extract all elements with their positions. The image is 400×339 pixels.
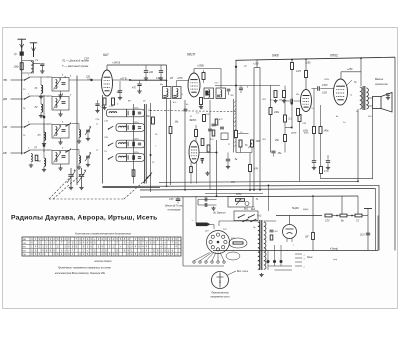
detector cluster resistor b	[212, 130, 215, 136]
band row wire СВ	[11, 126, 24, 128]
oscillator switch contact о2	[108, 126, 114, 130]
svg-text:СЛ3: СЛ3	[325, 221, 330, 223]
cap С16	[95, 100, 99, 113]
svg-text:Зв. Звукосн: Зв. Звукосн	[213, 213, 226, 215]
V5 cathode resistor 240к line	[319, 127, 322, 134]
trim cap ground КВ col2	[60, 164, 62, 167]
junction square x44 b	[43, 144, 45, 146]
gang link diagonal left	[49, 177, 71, 199]
resistor R1 100к	[20, 63, 23, 70]
capacitor С25 external	[176, 197, 181, 204]
vertical x185	[184, 100, 186, 190]
bottom PSU bus y250	[213, 250, 378, 252]
band row wire КВ	[11, 152, 24, 154]
svg-text:Д1: Д1	[243, 66, 247, 68]
trimmer capacitor C1	[33, 64, 44, 70]
vertical x166.5 lower	[166, 99, 168, 186]
svg-text:Вкл. сеть: Вкл. сеть	[237, 270, 249, 273]
wire det to pot	[236, 152, 252, 154]
rail cap right	[364, 209, 372, 216]
V3 plate resistor to bus	[305, 59, 308, 90]
V1 screen cap gnd	[118, 96, 122, 100]
svg-text:общ: общ	[333, 259, 337, 261]
svg-text:47б: 47б	[254, 168, 259, 171]
switch Вк1 contacts top	[242, 219, 256, 222]
V2 cathode ground	[199, 105, 203, 109]
svg-text:КВ: КВ	[3, 151, 7, 155]
wire IF1 to tube2 grid	[177, 80, 194, 82]
IF transformer ФПЧ-2 primary box	[204, 88, 214, 99]
V5 grid cap gnd	[312, 161, 316, 166]
left B+ loop top wire	[107, 64, 167, 66]
svg-text:включен диапаз: включен диапаз	[95, 260, 112, 263]
svg-text:+250В: +250В	[197, 66, 204, 68]
svg-text:6700: 6700	[236, 193, 242, 196]
table row header texts	[23, 239, 26, 256]
antenna A2 local	[30, 43, 37, 57]
resistor on x236	[235, 131, 238, 138]
tuned circuit box СВ col2	[52, 125, 69, 139]
tuned circuit box ДВ col2	[52, 97, 69, 111]
row4 extra coil cluster	[29, 154, 38, 168]
resistor 5к detector	[239, 140, 242, 147]
tube V6 5Ц4С rectifier	[283, 225, 297, 243]
trim cap ground ДВ col2	[60, 110, 62, 113]
cap on x185	[184, 109, 188, 111]
svg-text:3(4)Ц: 3(4)Ц	[303, 208, 309, 211]
band switch arm mechanical	[143, 173, 152, 184]
svg-text:громкогов: громкогов	[375, 83, 388, 86]
svg-text:4П: 4П	[170, 77, 173, 80]
filter resistor R F2	[340, 214, 347, 217]
speaker wires	[368, 97, 373, 99]
oscillator circuit loop о2	[116, 124, 145, 132]
feedthrough cap 220 grid	[90, 79, 92, 81]
RF2 switch contact y154	[65, 149, 71, 152]
filament junction dots	[267, 260, 270, 263]
ground of Л4	[42, 168, 46, 172]
table cell marks	[31, 239, 177, 256]
V2 screen resistor	[202, 70, 205, 83]
gang C6a ground	[69, 186, 73, 190]
svg-text:240к: 240к	[323, 130, 330, 133]
RF2 ground y128	[77, 140, 81, 144]
svg-text:Т — местный прием: Т — местный прием	[62, 64, 88, 68]
PSU right vertical x378	[377, 216, 379, 251]
svg-text:6Е5С: 6Е5С	[190, 118, 198, 122]
resistor 47к right	[249, 165, 252, 172]
bottom bus E y196.5	[140, 196, 358, 197]
oscillator switch contact о3	[108, 143, 114, 146]
C10 ground	[144, 77, 148, 81]
power transformer Тр1 core	[260, 220, 262, 270]
detector small box	[221, 133, 228, 140]
speaker Гр1	[373, 93, 393, 113]
tuned circuit box КВ col2	[52, 151, 69, 165]
V1 cathode resistor	[103, 98, 106, 105]
fuse oval inner	[233, 242, 243, 244]
V5 plate wire to x361	[341, 71, 361, 73]
main B+ bus right	[236, 57, 396, 60]
svg-text:Л1: Л1	[34, 87, 39, 90]
C11 ground	[159, 77, 163, 81]
ground of Л1	[39, 95, 43, 99]
V3 cathode lead down	[298, 112, 301, 181]
svg-text:220а: 220а	[133, 107, 139, 109]
IF2 side caps	[227, 89, 231, 95]
left vertical bus x150.5	[150, 103, 152, 192]
svg-text:Сч2: Сч2	[257, 215, 262, 218]
bottom bus B y186	[103, 185, 380, 186]
svg-text:С13: С13	[156, 77, 161, 80]
svg-text:0,1: 0,1	[196, 113, 199, 115]
wire plug bus	[195, 196, 197, 225]
resistor x313	[312, 233, 315, 240]
V1 plate wire to top bus	[106, 65, 108, 71]
vertical wire x236	[235, 60, 237, 152]
tuning gang capacitor C6b	[78, 168, 87, 186]
left vertical wire x44	[43, 95, 45, 152]
pickup cap ground	[211, 207, 215, 211]
voltage selector rotary	[207, 231, 230, 254]
V4 bottom wires	[190, 162, 197, 184]
vertical x170.5 with resistor	[169, 100, 172, 185]
svg-text:+140 В: +140 В	[112, 62, 120, 65]
svg-text:Л3: Л3	[37, 134, 42, 137]
svg-text:колонкорам: колонкорам	[168, 209, 181, 211]
feedback wire x372	[321, 109, 373, 179]
leader line Вкл сеть	[227, 270, 249, 276]
RF2 coil y154	[79, 150, 81, 166]
blob junction V3	[291, 102, 293, 104]
junction dot x291 y127	[291, 127, 293, 129]
gang C6b ground	[79, 186, 83, 190]
cap blob near V4	[201, 159, 204, 164]
band coil Л2	[41, 96, 43, 114]
left vertical bus x102.5	[102, 95, 104, 184]
resistor near V4 b	[207, 145, 210, 152]
svg-text:1: 1	[28, 94, 29, 96]
svg-text:С2Р: С2Р	[87, 79, 92, 81]
oscillator circuit loop о3	[116, 140, 145, 148]
svg-text:Л12: Л12	[261, 139, 267, 141]
band row wire ЛВ.	[11, 79, 24, 81]
V5 screen wire to bus	[347, 80, 352, 85]
detector cluster resistor a	[203, 115, 206, 122]
junction dot y80 x130	[129, 79, 131, 81]
svg-text:6Ж8: 6Ж8	[272, 54, 279, 58]
oscillator circuit loop о4	[116, 154, 145, 162]
Тр1 primary winding	[258, 222, 260, 269]
V6 anode cap parts	[270, 230, 274, 240]
V2 cathode resistor	[200, 98, 203, 105]
svg-text:+87 В: +87 В	[120, 78, 127, 81]
feedback wire x358	[357, 109, 359, 181]
svg-text:6А7: 6А7	[103, 53, 109, 57]
resistor 240к right	[269, 108, 272, 115]
svg-text:28в: 28в	[274, 140, 280, 142]
coupling cap to V3 grid	[286, 99, 301, 103]
RF2 switch contact y128	[65, 123, 71, 126]
svg-text:220а: 220а	[133, 152, 139, 154]
selector return bottom wire	[183, 265, 224, 267]
band row link wire ДВ	[30, 95, 52, 97]
svg-text:напряжения сети: напряжения сети	[210, 297, 230, 299]
wire V2 plate to x221	[194, 68, 221, 70]
pin stubs	[295, 254, 302, 266]
lightning arrester Гр	[20, 52, 24, 56]
resistor V3 grid b	[283, 91, 286, 98]
ground of Л2	[39, 114, 43, 118]
band switch contact ДВ	[24, 96, 30, 100]
V5 grid resistor	[313, 127, 316, 134]
bus E right vertical x358	[357, 196, 359, 216]
cap 470 under grid wire	[137, 80, 141, 93]
RF2 trim cap y154	[85, 152, 91, 167]
svg-text:220а: 220а	[133, 138, 139, 140]
fuse oval Пр	[229, 238, 247, 248]
svg-text:Л12: Л12	[261, 99, 267, 101]
svg-text:Л2: Л2	[34, 106, 39, 109]
power switch box Вк2	[234, 211, 258, 221]
antenna primary coil L1a	[31, 62, 33, 73]
wire detector down	[216, 140, 218, 153]
RF2 ground y154	[77, 166, 81, 170]
bottom bus A y182.3	[159, 181, 358, 182]
wire selector to plug	[210, 225, 214, 230]
left vertical bus x77	[76, 76, 78, 186]
RF2 link wire y128	[72, 123, 80, 125]
voltage selector detail circled	[212, 272, 229, 289]
antenna A1 outdoor	[18, 39, 27, 56]
V5 cathode wire	[320, 105, 322, 127]
V1 cathode gnd	[102, 106, 106, 110]
svg-text:С2Р: С2Р	[84, 58, 89, 61]
wafer bottom resistor	[132, 170, 135, 177]
selector left return vertical	[182, 197, 184, 267]
oscillator switch contact о4	[108, 156, 114, 160]
bypass cap C10 on loop	[144, 65, 148, 77]
tube V4 6Е5С magic eye	[189, 141, 199, 164]
tuned circuit box ЛВ. col2	[52, 78, 69, 92]
V5 plate wire up	[340, 72, 342, 79]
main antenna bus wire	[21, 56, 23, 155]
svg-text:6И1П: 6И1П	[187, 53, 196, 57]
svg-text:С20б: С20б	[324, 79, 330, 81]
oscillator switch wafer bar	[144, 104, 146, 184]
cap x228	[226, 153, 230, 166]
bottom bus C y189.5	[140, 189, 376, 191]
IF transformer ФПЧ-1 primary box	[163, 87, 172, 99]
detector caps cluster	[208, 127, 224, 131]
svg-text:Примечание: напряжения измерял: Примечание: напряжения измерялись на схе…	[58, 266, 111, 269]
V1 screen resistor 47к	[112, 98, 115, 105]
svg-text:5Ц4С: 5Ц4С	[292, 206, 300, 210]
cathode cap gnd	[326, 166, 330, 170]
svg-text:Внешн: Внешн	[375, 77, 384, 81]
shielded lead parallel line	[234, 99, 236, 153]
bus junction dots	[166, 180, 359, 197]
pickup caps	[198, 198, 217, 208]
band row link wire КВ	[30, 149, 52, 151]
loop B+ feed tick	[256, 60, 258, 68]
rail drop x313	[312, 196, 314, 251]
svg-text:1: 1	[28, 122, 29, 124]
junction dot x236 top	[235, 66, 237, 68]
band switch contact КВ	[24, 150, 30, 154]
svg-text:6П6С: 6П6С	[330, 54, 339, 58]
svg-text:4,0мкф: 4,0мкф	[330, 248, 338, 251]
junction dots rail	[336, 215, 338, 217]
svg-text:Вк1: Вк1	[244, 208, 249, 211]
wire grid line y81	[131, 80, 167, 82]
rail drop x368	[367, 216, 369, 251]
pin labels	[304, 255, 306, 269]
svg-text:220: 220	[230, 238, 235, 240]
svg-text:ДВ: ДВ	[2, 97, 7, 101]
tone control box	[228, 197, 253, 208]
detector cluster cap a	[212, 124, 216, 126]
PSU top wire y215	[276, 215, 322, 217]
grid loop right wire x260	[259, 68, 261, 190]
filament wires	[268, 245, 292, 270]
ground for C1	[40, 70, 44, 74]
RF2 coil y128	[79, 124, 81, 140]
V5 grid resistor wire	[313, 89, 315, 127]
Тр1 secondary winding	[264, 222, 266, 269]
vertical x210 screen feed	[209, 100, 211, 190]
gnd V3 grid a	[273, 99, 277, 103]
junction dot detector	[216, 152, 218, 154]
svg-text:220: 220	[148, 71, 154, 74]
gang mechanical link dashed	[49, 198, 124, 200]
AVC dashed line	[150, 111, 236, 112]
misc tiny value labels	[23, 66, 372, 262]
bus B right vertical x379	[378, 185, 380, 250]
PSU interconnect wires	[219, 221, 251, 226]
gang link diagonal right	[124, 174, 152, 199]
bus junction dots top	[291, 57, 362, 60]
selector terminal circles	[193, 261, 225, 263]
junction dots IF1	[166, 80, 168, 82]
PSU gnd	[259, 273, 263, 277]
gnd x228	[226, 165, 230, 169]
tube V3 6Ж8	[301, 90, 312, 112]
grid row wire y80 long	[69, 79, 167, 81]
wire x250 lower	[249, 153, 251, 165]
svg-text:240М: 240М	[290, 132, 296, 135]
svg-text:+250: +250	[347, 68, 353, 71]
band switch contact СВ	[24, 124, 30, 128]
grid loop top	[254, 67, 260, 69]
tube V1 6А7	[102, 70, 113, 96]
band coil Л3	[44, 124, 46, 142]
svg-text:~: ~	[192, 219, 194, 223]
mains plug connector	[196, 223, 211, 227]
vertical x285 with resistor 0,1	[284, 86, 292, 153]
filter resistor R F1	[325, 214, 332, 217]
band coil Л1	[41, 77, 43, 95]
svg-text:Вт: Вт	[160, 84, 163, 86]
vertical wire x270.5	[270, 86, 272, 108]
wire y133.5 stub	[238, 133, 249, 135]
B+ rail wires	[332, 215, 340, 217]
V2 plate wire	[193, 69, 195, 74]
svg-text:1: 1	[28, 75, 29, 77]
svg-text:+250: +250	[305, 62, 311, 65]
svg-text:100к: 100к	[13, 65, 19, 68]
V1 screen cap	[118, 81, 122, 96]
tube V5 6П6С	[334, 79, 348, 105]
gnd V3 grid b	[282, 99, 286, 103]
svg-text:Контакты переключателя диапазо: Контакты переключателя диапазонов	[75, 232, 131, 236]
bypass cap C11 on loop	[159, 65, 163, 77]
svg-text:Рвых: Рвых	[307, 257, 313, 259]
svg-text:в: в	[304, 267, 305, 269]
V6 top wire	[289, 216, 291, 225]
svg-text:Г,): Г,)	[350, 95, 352, 97]
junction dot x150.5	[150, 154, 152, 156]
V4 gnd	[205, 172, 209, 176]
svg-text:СВ: СВ	[3, 125, 7, 129]
svg-text:Переключатель: Переключатель	[211, 293, 229, 295]
detector cluster resistor c	[215, 119, 218, 125]
volume potentiometer 1М	[249, 140, 254, 148]
coupling cap C0,05	[312, 86, 334, 90]
band row link wire СВ	[30, 123, 52, 125]
band switch contact ЛВ.	[24, 77, 30, 81]
filter resistor R F3	[355, 214, 362, 217]
svg-text:+87б: +87б	[177, 77, 183, 80]
svg-text:1М: 1М	[279, 100, 282, 102]
oval lower	[226, 252, 240, 260]
svg-text:Внешн Ш-Гн или: Внешн Ш-Гн или	[165, 206, 183, 208]
svg-text:0,25: 0,25	[296, 70, 301, 73]
svg-text:Радиолы Даугава, Аврора, Ирты: Радиолы Даугава, Аврора, Иртыш, Исеть	[11, 215, 158, 222]
svg-text:ЛВ.: ЛВ.	[2, 78, 8, 82]
svg-text:0,05: 0,05	[322, 92, 327, 95]
vertical x342 to PSU	[341, 196, 343, 215]
vertical x221 to IF2	[220, 69, 222, 89]
grid loop left wire x254	[253, 68, 255, 190]
band row link wire ЛВ.	[30, 76, 52, 78]
cap 15в	[271, 151, 275, 156]
vertical x268.5 to PSU	[268, 185, 270, 211]
svg-text:вольтметром Вольтомметр. Значе: вольтметром Вольтомметр. Значения 48в	[55, 272, 106, 275]
resistor 4,7к	[320, 167, 323, 174]
resistor V3 grid a	[274, 91, 277, 98]
wire y85 driver	[215, 85, 280, 87]
speaker top cap gnd	[386, 94, 390, 100]
junction square x44 a	[43, 116, 45, 118]
Тр1 top leads	[251, 220, 258, 222]
band coil Л4	[44, 150, 46, 168]
left section bottom shield wire	[103, 187, 161, 189]
trim cap ground СВ col2	[60, 138, 62, 141]
RF2 link wire y154	[72, 149, 80, 151]
oscillator circuit loop о1	[107, 109, 145, 117]
V4 anode resistor	[195, 125, 198, 141]
left vertical bus x133.5	[133, 104, 135, 184]
svg-text:20,0: 20,0	[359, 235, 365, 237]
junction dot y85	[235, 85, 237, 87]
cap on x368	[366, 233, 370, 235]
IF transformer ФПЧ-1 secondary box	[173, 87, 182, 99]
V3 screen resistor from bus	[291, 60, 294, 128]
output transformer Тр2	[360, 59, 369, 110]
bottom bus D y193.5	[205, 193, 263, 195]
left B+ loop right vertical	[166, 65, 168, 87]
